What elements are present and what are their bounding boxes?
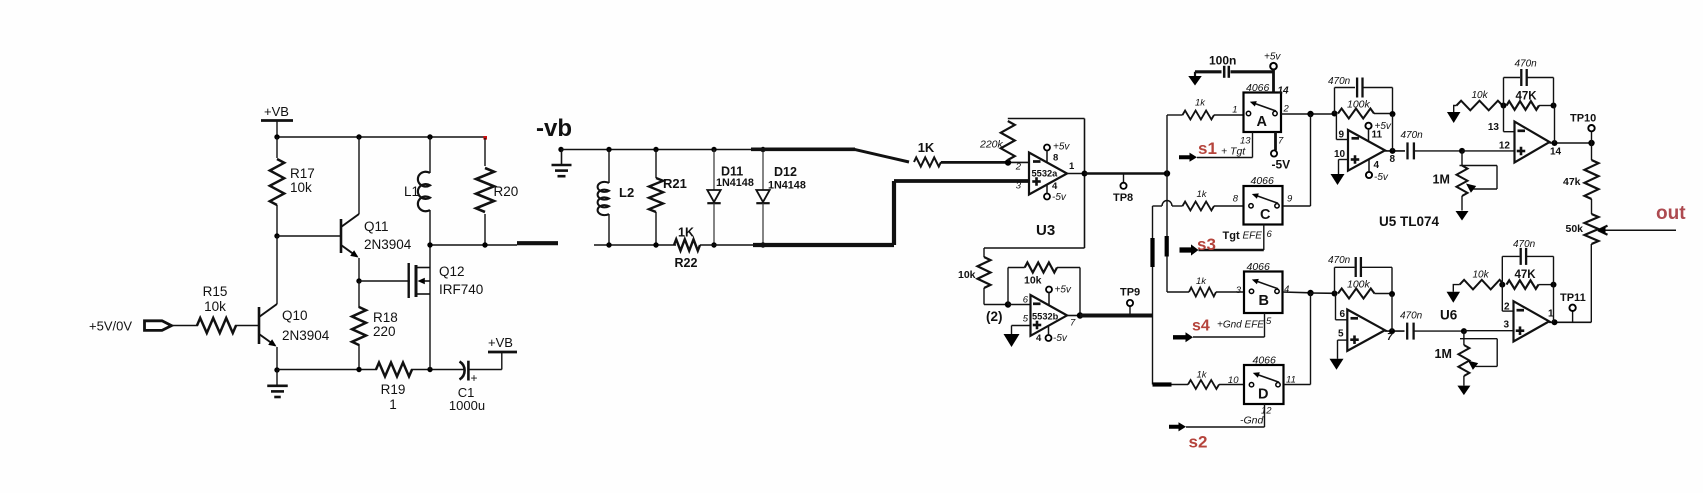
svg-text:2N3904: 2N3904	[282, 328, 330, 343]
node L2 top	[606, 147, 611, 152]
resistor 100k U5c feedback	[1338, 289, 1375, 299]
svg-text:s4: s4	[1192, 318, 1210, 335]
svg-text:R15: R15	[203, 284, 228, 299]
wire top rail +VB	[277, 136, 485, 138]
test point TP8	[1123, 174, 1125, 183]
svg-text:9: 9	[1339, 130, 1345, 141]
svg-text:D: D	[1258, 387, 1268, 403]
svg-text:5: 5	[1023, 314, 1029, 325]
svg-text:s3: s3	[1197, 235, 1216, 254]
switch C 4066	[1244, 186, 1283, 225]
capacitor 470n U6 feedback	[1501, 256, 1503, 284]
svg-text:1K: 1K	[678, 226, 694, 240]
svg-text:R20: R20	[494, 184, 519, 199]
svg-text:R17: R17	[290, 166, 315, 181]
op-amp U5b (pins 13,12,14)	[1503, 106, 1505, 132]
svg-text:47k: 47k	[1563, 176, 1581, 188]
node -vb ground	[558, 147, 563, 152]
svg-text:TP11: TP11	[1560, 292, 1586, 304]
svg-text:TP9: TP9	[1120, 287, 1140, 299]
svg-text:4: 4	[1036, 333, 1042, 344]
resistor 10k U3b feedback	[1007, 268, 1009, 305]
capacitor 470n U5c out	[1406, 323, 1408, 340]
svg-text:U6: U6	[1440, 308, 1458, 323]
power +5v U5a pin11	[1365, 123, 1371, 129]
resistor R18	[358, 281, 360, 308]
wire U6 output pin1	[1549, 321, 1591, 323]
svg-text:6: 6	[1267, 229, 1273, 240]
node U6 47K right	[1551, 282, 1557, 288]
svg-text:+: +	[471, 371, 478, 385]
node L2 bottom	[606, 242, 611, 247]
svg-text:47K: 47K	[1516, 90, 1538, 102]
node D12 top	[760, 147, 765, 152]
diode D11 1N4148	[713, 150, 715, 191]
svg-text:14: 14	[1278, 86, 1290, 97]
resistor 10k to U3b	[983, 248, 985, 257]
node R17 bottom / Q10 collector / Q11 base	[274, 233, 279, 238]
svg-text:3: 3	[1016, 181, 1022, 192]
wire U3a feedback loop	[1008, 118, 1085, 120]
node U5a feedback right	[1390, 111, 1396, 117]
resistor R17	[276, 137, 278, 158]
wire 50k to U6 out	[1590, 244, 1592, 322]
svg-text:+5V/0V: +5V/0V	[89, 319, 132, 334]
svg-text:470n: 470n	[1328, 76, 1351, 87]
svg-text:100n: 100n	[1209, 54, 1236, 68]
svg-text:11: 11	[1372, 130, 1383, 141]
svg-text:L1: L1	[404, 184, 419, 199]
wire D out	[1284, 384, 1311, 386]
op-amp U6 (pins 2,3,1)	[1501, 285, 1503, 312]
svg-text:(2): (2)	[986, 309, 1003, 324]
control s4 wire to pin5	[1264, 313, 1266, 337]
transistor Q12 IRF740 (MOSFET)	[408, 263, 410, 298]
switch A 4066	[1244, 93, 1282, 133]
svg-text:14: 14	[1550, 147, 1562, 158]
op-amp U3a 5532a	[1029, 153, 1067, 195]
power +5v switch A pin14	[1270, 63, 1277, 70]
svg-text:470n: 470n	[1515, 59, 1538, 70]
svg-text:-Gnd: -Gnd	[1240, 415, 1265, 427]
wire -vb rail	[561, 149, 751, 151]
svg-text:+5v: +5v	[1264, 52, 1281, 63]
svg-text:10: 10	[1228, 375, 1239, 386]
svg-text:6: 6	[1340, 309, 1346, 320]
resistor 10k at U5b	[1457, 101, 1503, 111]
svg-text:1k: 1k	[1197, 189, 1208, 200]
svg-text:3: 3	[1503, 320, 1509, 331]
wire A out to node	[1281, 113, 1335, 115]
node R20 top (red mark)	[483, 136, 487, 140]
resistor R20	[484, 138, 486, 166]
svg-text:470n: 470n	[1513, 239, 1536, 250]
svg-text:2N3904: 2N3904	[364, 237, 412, 252]
resistor 1K input	[914, 157, 941, 166]
resistor 47K feedback	[1507, 101, 1540, 110]
svg-text:4066: 4066	[1246, 82, 1270, 94]
wire mid rail (switching node)	[430, 244, 517, 246]
capacitor 470n U5c feedback	[1334, 267, 1336, 293]
svg-text:+5v: +5v	[1053, 142, 1070, 153]
power -5v U3b pin4	[1046, 335, 1052, 341]
ground under Q10	[276, 370, 278, 386]
resistor 1k (switch B)	[1167, 291, 1189, 293]
svg-text:Tgt: Tgt	[1223, 230, 1240, 242]
power +5v U3a pin8	[1044, 145, 1050, 151]
svg-text:1k: 1k	[1195, 98, 1206, 109]
node B/D outputs	[1307, 290, 1313, 296]
svg-text:470n: 470n	[1400, 311, 1423, 322]
node A/C outputs	[1307, 111, 1313, 117]
svg-text:10: 10	[1334, 149, 1346, 160]
svg-text:2: 2	[1015, 162, 1022, 173]
svg-text:+ Tgt: + Tgt	[1221, 146, 1246, 158]
svg-text:5: 5	[1338, 329, 1344, 340]
power -5V switch A pin7	[1274, 132, 1277, 150]
svg-text:6: 6	[1023, 295, 1029, 306]
wire U6 + input	[1464, 330, 1514, 332]
wire U5a output pin8	[1385, 150, 1405, 152]
svg-text:A: A	[1257, 114, 1268, 130]
svg-text:47K: 47K	[1515, 269, 1537, 281]
svg-text:50k: 50k	[1566, 223, 1584, 235]
svg-text:100k: 100k	[1347, 99, 1371, 111]
svg-text:1M: 1M	[1435, 347, 1452, 361]
control s3 wire to pin6	[1263, 225, 1265, 251]
svg-text:1K: 1K	[918, 140, 935, 155]
op-amp U5c (pins 6,5,7)	[1335, 294, 1337, 320]
svg-text:7: 7	[1387, 332, 1393, 343]
control s1 wire to pin13	[1252, 132, 1254, 158]
node U3a out to switches	[1164, 170, 1170, 176]
svg-text:+5v: +5v	[1055, 285, 1072, 296]
node R18 bottom	[356, 367, 361, 372]
svg-text:-5v: -5v	[1374, 172, 1389, 183]
ground arrow U3b pin5	[1012, 325, 1031, 327]
node U5a input	[1332, 111, 1338, 117]
svg-text:7: 7	[1070, 318, 1076, 329]
svg-text:+Gnd EFE: +Gnd EFE	[1217, 320, 1264, 331]
svg-text:R18: R18	[373, 310, 398, 325]
resistor 47k	[1591, 143, 1593, 160]
svg-text:B: B	[1259, 293, 1269, 309]
resistor 47K U6 feedback	[1507, 280, 1539, 289]
wire vertical C/D feed from U3b	[1152, 206, 1154, 385]
wire thick bus top to U3 pin2	[751, 148, 855, 152]
wire B/D node to U5c	[1311, 292, 1335, 294]
svg-text:220k: 220k	[979, 139, 1004, 151]
svg-text:4066: 4066	[1247, 261, 1271, 273]
svg-text:+VB: +VB	[488, 335, 513, 350]
wire node down to C out	[1310, 114, 1312, 206]
svg-text:Q10: Q10	[282, 308, 308, 323]
ground arrow at 100n	[1194, 72, 1196, 76]
resistor 1k (switch A)	[1167, 114, 1183, 116]
svg-text:U3: U3	[1036, 222, 1055, 239]
svg-text:1k: 1k	[1196, 276, 1207, 287]
svg-text:5532b: 5532b	[1032, 312, 1059, 322]
node Q12 source / C1	[427, 367, 432, 372]
capacitor 470n U5a feedback	[1334, 88, 1336, 114]
capacitor 470n U5a out	[1406, 142, 1408, 159]
svg-text:-5V: -5V	[1272, 158, 1291, 172]
wire vertical U3a out to B row	[1166, 174, 1168, 293]
node D12 bottom	[760, 242, 765, 247]
node R21 bottom	[653, 242, 658, 247]
svg-text:5: 5	[1266, 316, 1272, 327]
potentiometer 50k	[1585, 214, 1599, 244]
op-amp U3b 5532b	[1008, 304, 1031, 306]
switch D 4066	[1244, 365, 1284, 404]
wire U5b output pin14	[1550, 142, 1592, 144]
switch B 4066	[1244, 272, 1283, 314]
wire U3a output	[1067, 173, 1085, 175]
svg-text:12: 12	[1499, 141, 1511, 152]
svg-text:5532a: 5532a	[1032, 169, 1059, 179]
resistor R19	[376, 363, 412, 377]
svg-text:D12: D12	[774, 165, 797, 179]
wire C out	[1283, 205, 1311, 207]
svg-text:10k: 10k	[1472, 90, 1489, 101]
diode D12 1N4148	[762, 150, 764, 191]
wire B out to node	[1283, 291, 1311, 294]
svg-text:470n: 470n	[1328, 255, 1351, 266]
test point TP11	[1572, 311, 1574, 322]
wire bottom-left rail	[277, 369, 377, 371]
svg-text:-5v: -5v	[1053, 333, 1068, 344]
out wiper arrow	[1600, 229, 1676, 231]
svg-text:10k: 10k	[204, 299, 226, 314]
svg-text:1N4148: 1N4148	[716, 177, 754, 189]
capacitor 470n U5b feedback	[1503, 78, 1505, 106]
svg-text:R19: R19	[381, 382, 406, 397]
svg-text:4: 4	[1284, 284, 1289, 295]
node U6 47K left	[1499, 282, 1505, 288]
inductor L1	[429, 137, 431, 173]
svg-text:TP8: TP8	[1113, 192, 1133, 204]
power -5v U5a pin4	[1366, 172, 1372, 178]
wire U5c output pin7	[1385, 330, 1405, 332]
svg-text:1M: 1M	[1433, 173, 1450, 187]
resistor 1k (switch D)	[1188, 380, 1219, 389]
svg-text:10k: 10k	[290, 180, 312, 195]
test point TP10	[1588, 140, 1594, 146]
svg-text:+VB: +VB	[264, 104, 289, 119]
svg-text:IRF740: IRF740	[439, 282, 483, 297]
node L1 top	[427, 134, 432, 139]
svg-text:TP10: TP10	[1570, 113, 1596, 125]
svg-text:4: 4	[1374, 160, 1380, 171]
svg-text:9: 9	[1287, 194, 1293, 205]
svg-text:100k: 100k	[1347, 279, 1371, 291]
node D11 bottom	[711, 242, 716, 247]
svg-text:8: 8	[1053, 153, 1058, 164]
wire D row	[1153, 384, 1189, 386]
resistor 1k (switch C)	[1183, 202, 1215, 211]
potentiometer 1M bottom	[1463, 331, 1465, 345]
node U5c input	[1332, 291, 1338, 297]
svg-text:8: 8	[1390, 154, 1396, 165]
node R21 top	[653, 147, 658, 152]
svg-text:1: 1	[389, 397, 397, 412]
svg-text:R21: R21	[663, 176, 687, 191]
svg-text:Q12: Q12	[439, 264, 465, 279]
svg-text:s1: s1	[1198, 139, 1217, 158]
node 47K left	[1501, 103, 1507, 109]
svg-text:-5v: -5v	[1052, 192, 1067, 203]
node Q11 emitter / Q12 gate / R18 top	[356, 278, 361, 283]
wire Q11 base	[277, 235, 340, 237]
svg-text:1: 1	[1548, 309, 1554, 320]
wire vertical U3a out to A row	[1166, 115, 1168, 174]
svg-text:1k: 1k	[1197, 370, 1208, 381]
svg-text:13: 13	[1488, 122, 1500, 133]
ground at -vb	[561, 149, 563, 165]
capacitor C1 1000u (electrolytic)	[460, 362, 465, 380]
svg-text:10k: 10k	[958, 269, 976, 281]
svg-text:10k: 10k	[1024, 275, 1042, 287]
node D11 top	[711, 147, 716, 152]
op-amp U5a (pins 9,10,8)	[1335, 114, 1337, 140]
ground arrow U5c pin5	[1338, 339, 1348, 341]
resistor 220k feedback	[1001, 121, 1015, 160]
svg-text:4066: 4066	[1251, 175, 1275, 187]
resistor R21	[655, 150, 657, 179]
svg-text:2: 2	[1283, 104, 1290, 115]
node R20 bottom	[482, 242, 487, 247]
transistor Q10 2N3904	[258, 307, 261, 344]
svg-text:R22: R22	[675, 256, 698, 270]
svg-text:L2: L2	[619, 185, 634, 200]
svg-text:1: 1	[1069, 161, 1075, 172]
svg-text:8: 8	[1233, 194, 1239, 205]
svg-text:4: 4	[1052, 181, 1058, 192]
svg-text:EFE: EFE	[1243, 231, 1263, 242]
power +5v U3b	[1046, 287, 1052, 293]
svg-text:1000u: 1000u	[449, 398, 485, 413]
node U3b inverting input (2)	[1005, 301, 1011, 307]
test point TP9	[1129, 306, 1131, 314]
svg-text:U5 TL074: U5 TL074	[1379, 214, 1440, 229]
power -5v U3a pin4	[1044, 194, 1050, 200]
node 1M top	[1459, 148, 1465, 154]
svg-text:10k: 10k	[1473, 270, 1490, 281]
power +VB at C1	[501, 352, 503, 370]
svg-text:s2: s2	[1189, 433, 1208, 452]
svg-text:C: C	[1260, 207, 1271, 223]
svg-text:220: 220	[373, 324, 396, 339]
svg-text:7: 7	[1278, 136, 1284, 147]
svg-text:1N4148: 1N4148	[768, 180, 806, 192]
svg-text:1: 1	[1232, 105, 1237, 116]
ground arrow U5a pin10	[1339, 159, 1349, 161]
svg-text:-vb: -vb	[536, 115, 572, 142]
node 1M bottom top	[1461, 328, 1467, 334]
wire thick bus bottom to U3 pin3	[753, 243, 894, 247]
svg-text:4066: 4066	[1253, 355, 1277, 367]
resistor 10k at U6	[1460, 280, 1504, 290]
svg-text:3: 3	[1236, 285, 1242, 296]
node U5c feedback right	[1389, 291, 1395, 297]
transistor Q11 2N3904	[340, 219, 343, 253]
node 47K right	[1551, 103, 1557, 109]
svg-text:470n: 470n	[1401, 130, 1424, 141]
resistor 100k U5a feedback	[1338, 109, 1374, 119]
svg-text:2: 2	[1504, 302, 1510, 313]
node Q11 collector rail	[356, 134, 361, 139]
svg-text:out: out	[1656, 203, 1686, 224]
node Q10 emitter ground	[274, 367, 279, 372]
inductor L2	[608, 150, 610, 184]
node L1 bottom	[427, 242, 432, 247]
node U3a inverting input	[1005, 159, 1011, 165]
wire C row with hop	[1153, 205, 1163, 207]
potentiometer 1M top	[1461, 151, 1463, 166]
svg-text:Q11: Q11	[364, 219, 389, 234]
wire U3b output	[1067, 315, 1080, 317]
resistor R22 1K	[674, 239, 700, 250]
control s2 wire to pin12	[1264, 404, 1266, 427]
wire to pin12	[1462, 150, 1515, 152]
